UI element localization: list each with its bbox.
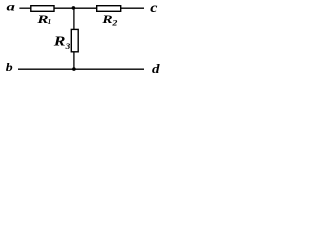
- svg-text:R: R: [53, 34, 66, 49]
- svg-text:2: 2: [111, 18, 118, 27]
- svg-text:R: R: [101, 14, 113, 27]
- svg-text:1: 1: [48, 18, 52, 26]
- svg-text:c: c: [150, 1, 158, 15]
- svg-text:a: a: [7, 1, 15, 14]
- svg-text:b: b: [6, 60, 13, 74]
- svg-text:3: 3: [65, 41, 71, 51]
- svg-text:d: d: [152, 62, 161, 76]
